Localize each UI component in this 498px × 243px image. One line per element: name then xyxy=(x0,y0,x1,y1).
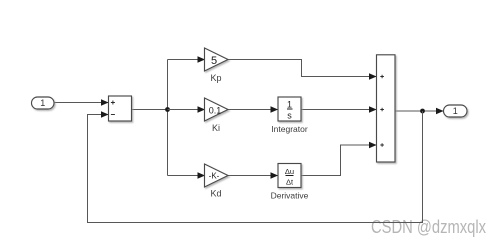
block Integrator xyxy=(271,97,308,134)
svg-text:1: 1 xyxy=(40,98,45,108)
wire Add output to Out1 xyxy=(395,110,443,112)
wire Kd output to Derivative xyxy=(228,175,278,177)
wire Ki output to Integrator xyxy=(228,109,278,111)
svg-text:1: 1 xyxy=(453,106,458,116)
node output junction xyxy=(420,109,425,114)
svg-text:0.1: 0.1 xyxy=(209,105,222,115)
block Derivative xyxy=(271,164,309,201)
svg-text:s: s xyxy=(287,111,292,121)
wire feedback to Sum1 minus xyxy=(88,111,423,223)
gain Ki xyxy=(205,98,229,133)
sum Add xyxy=(377,55,396,162)
svg-text:Δu: Δu xyxy=(285,167,294,176)
svg-text:Integrator: Integrator xyxy=(271,124,308,134)
svg-text:1: 1 xyxy=(287,100,292,110)
gain Kd xyxy=(205,164,229,199)
wire Sum1 output to junction xyxy=(132,109,168,111)
svg-text:Kd: Kd xyxy=(210,189,221,199)
port Out1 xyxy=(444,105,468,117)
wire vertical branch line xyxy=(167,60,169,176)
svg-text:Ki: Ki xyxy=(212,123,220,133)
port In1 xyxy=(32,97,55,109)
wire branch to Kp xyxy=(168,59,205,61)
wire Derivative output to Add xyxy=(301,145,376,176)
wire Integrator output to Add xyxy=(301,109,376,111)
svg-text:5: 5 xyxy=(211,55,217,67)
watermark CSDN xyxy=(371,217,486,237)
wire branch to Kd xyxy=(168,175,205,177)
wire input In1 to Sum1 xyxy=(54,102,108,104)
sum Sum1 xyxy=(109,96,132,121)
svg-text:Δt: Δt xyxy=(286,178,294,187)
wire junction to Ki xyxy=(168,109,205,111)
svg-text:Kp: Kp xyxy=(210,73,221,83)
node branch junction xyxy=(165,107,170,112)
svg-text:CSDN @dzmxqlx: CSDN @dzmxqlx xyxy=(371,217,486,237)
wire Kp output to Add xyxy=(228,60,376,77)
gain Kp xyxy=(205,48,229,83)
svg-text:-K-: -K- xyxy=(209,172,220,181)
svg-text:Derivative: Derivative xyxy=(271,191,309,201)
